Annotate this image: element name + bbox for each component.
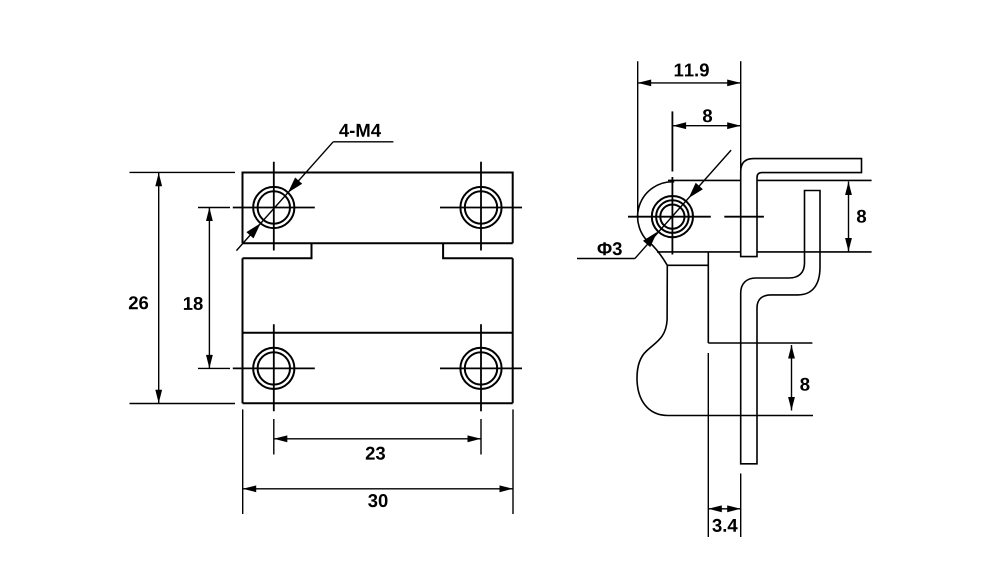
dim 11.9 text (675, 63, 709, 76)
dim 23 line (274, 438, 481, 440)
dim 8 top text (703, 109, 712, 122)
dim 8 lower line (791, 345, 793, 411)
dim 3.4 extension left (707, 353, 709, 537)
lower body curved outline with bulge (637, 265, 813, 415)
lower leaf fold line (243, 332, 513, 334)
dim 18 text (184, 297, 203, 310)
phi-3 leader (577, 258, 635, 260)
dim 23 text (366, 447, 385, 460)
back edge line upper (668, 179, 741, 181)
hole top-right circles (460, 187, 501, 228)
dim 8 right line (848, 182, 850, 252)
hole bottom-left circles (253, 348, 294, 389)
dim 18 extension top (198, 207, 230, 209)
dim 8 top line (673, 125, 741, 127)
knuckle vertical centerline (671, 111, 673, 171)
dim 30 line (243, 488, 513, 490)
dim 8 right text (857, 210, 866, 223)
hole top-right centerlines (440, 207, 522, 209)
hole bottom-right centerlines (440, 367, 522, 369)
hole top-left circles (253, 187, 294, 228)
label phi-3 (598, 242, 622, 255)
leader 4-M4 diagonal through hole (236, 142, 333, 251)
dim 26 extension top (130, 171, 236, 173)
back edge line mid (657, 251, 741, 253)
hole top-left centerlines (233, 207, 315, 209)
lower leaf step right (443, 243, 513, 258)
lower leaf bottom edge (243, 402, 513, 404)
dim 11.9 extension left (637, 61, 639, 218)
upper leaf bent cross-section (741, 159, 862, 257)
pin leader arrow upper (689, 183, 703, 198)
dim 11.9 extension right (740, 61, 742, 172)
leader arrow upper (288, 178, 302, 193)
dim 30 extension right (512, 409, 514, 514)
dim 26 text (129, 296, 148, 309)
top leaf plate outline (243, 173, 513, 244)
leader arrow lower (246, 223, 260, 238)
pin leader arrow lower (643, 232, 657, 247)
dim 26 extension bottom (130, 403, 236, 405)
dim 11.9 line (638, 82, 741, 84)
lower leaf step left (243, 243, 312, 258)
dim 23 extension left (273, 419, 275, 455)
dim 3.4 extension right (740, 474, 742, 538)
lower leaf bent cross-section (741, 191, 820, 464)
dim 3.4 line (708, 508, 740, 510)
top leaf bottom edge (243, 242, 513, 244)
leader 4-M4 underline (333, 141, 393, 143)
dim 18 extension bottom (198, 367, 230, 369)
dim 18 line (208, 208, 210, 369)
lower leaf left edge (242, 258, 244, 403)
dim 30 text (368, 494, 387, 507)
knuckle outer arc (638, 182, 709, 266)
knuckle pin circles (652, 196, 693, 237)
body inner vertical edge (707, 252, 709, 343)
body bottom inner line (708, 342, 812, 344)
label 4-M4 (339, 124, 381, 137)
pin leader diagonal through knuckle (635, 150, 731, 258)
hole bottom-right circles (460, 348, 501, 389)
dim 26 line (158, 173, 160, 403)
dim 23 extension right (480, 419, 482, 455)
hole bottom-left centerlines (233, 367, 315, 369)
dim 8 lower text (800, 378, 809, 391)
lower leaf right edge (512, 258, 514, 403)
dim 3.4 text (712, 519, 737, 532)
dim 30 extension left (242, 409, 244, 514)
knuckle horizontal centerline (628, 216, 711, 218)
